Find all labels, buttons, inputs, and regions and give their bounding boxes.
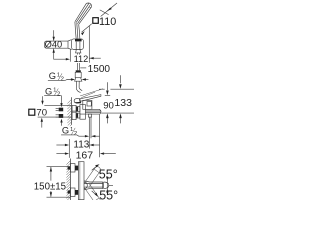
rotated spout down (outline)	[84, 184, 101, 205]
dimension D40: lower arrow elbow to 112	[54, 49, 67, 59]
handle butt flare	[76, 50, 81, 53]
svg-text:2: 2	[57, 91, 60, 97]
dim 70 upper arrow	[42, 96, 44, 101]
supply stub upper (in wall)	[59, 108, 64, 112]
outlet pipe lines	[89, 117, 91, 149]
supply connection bottom (top view)	[68, 190, 71, 193]
dim 70 lower arrow	[41, 122, 43, 128]
union nut upper	[76, 107, 80, 112]
G1/2 supply leader arrow down	[61, 96, 63, 104]
union nut lower	[76, 113, 80, 118]
dim 167	[99, 115, 101, 158]
wall hatch (top view)	[66, 159, 70, 204]
svg-text:2: 2	[74, 131, 77, 137]
rotated spout up (outline)	[84, 166, 101, 187]
shower outlet nipple	[88, 114, 91, 117]
svg-text:G: G	[45, 86, 52, 96]
leader 1500	[80, 67, 86, 69]
dimension 112: right ext bar and arrow	[89, 26, 101, 63]
escutcheon (side view)	[72, 105, 76, 119]
dimension sq110: dim line	[82, 3, 118, 32]
dimension D40: upper arrow	[53, 30, 55, 40]
dimension sq110: upper arrowhead	[107, 8, 112, 12]
handle through ring	[76, 42, 80, 50]
supply stubs bracket arrow	[61, 122, 63, 126]
svg-text:150±15: 150±15	[34, 181, 66, 192]
hose nut	[76, 70, 81, 72]
svg-text:1500: 1500	[88, 64, 111, 75]
svg-text:133: 133	[114, 97, 132, 109]
arc arrow down 55	[92, 191, 97, 195]
svg-text:167: 167	[76, 150, 94, 162]
cartridge housing	[83, 100, 92, 109]
label 112	[73, 55, 87, 63]
mixer body block	[80, 105, 86, 120]
label sq70	[29, 109, 35, 115]
hose below nut	[76, 81, 79, 88]
level line lever-top	[99, 88, 134, 90]
svg-text:Ø40: Ø40	[45, 40, 63, 50]
hand shower handle	[75, 22, 80, 39]
svg-text:110: 110	[99, 16, 116, 28]
svg-text:90: 90	[103, 101, 114, 112]
svg-text:70: 70	[36, 107, 47, 118]
svg-text:G: G	[62, 126, 69, 136]
svg-text:55°: 55°	[99, 189, 118, 200]
svg-text:2: 2	[61, 76, 64, 82]
level line spout-bottom	[101, 112, 134, 114]
dimension sq110: lower arrowhead	[81, 31, 85, 35]
holder cone flare	[68, 40, 72, 50]
wall hatch (side view)	[67, 97, 71, 126]
dim 150+-15 ext lines	[47, 167, 71, 198]
svg-text:G: G	[49, 71, 56, 81]
svg-text:112: 112	[74, 54, 89, 64]
hose nut flare	[75, 78, 82, 82]
dimension 112: left ext bar	[69, 49, 71, 61]
hose upper	[78, 53, 80, 70]
dimension sq110: upper ext tick	[100, 10, 109, 15]
hand shower head	[74, 2, 92, 25]
G1/2 outlet arrow pair	[77, 135, 85, 136]
dim 90 upper arrow	[105, 82, 110, 95]
lever knob	[74, 98, 81, 103]
dim 133 upper arrow	[119, 75, 121, 83]
supply connection top (top view)	[68, 166, 71, 169]
spout (side view)	[80, 109, 101, 114]
wall holder cylinder	[44, 41, 68, 48]
mixer body (top view)	[78, 162, 84, 200]
lever blade	[79, 95, 101, 102]
dim 133 lower arrow	[120, 118, 122, 124]
arc arrow up 55	[92, 166, 98, 171]
dim 70 ext lines	[38, 105, 72, 117]
G1/2 arrow pair at nut	[65, 79, 72, 82]
spout (top view)	[84, 181, 103, 190]
center line arrows at spout tip	[107, 177, 113, 193]
lever raised outline	[80, 89, 103, 98]
svg-text:55°: 55°	[99, 167, 118, 181]
dim 113	[68, 139, 70, 158]
supply stub lower (in wall)	[59, 114, 64, 118]
label sq110	[92, 16, 117, 26]
dim 90 lower arrow	[106, 118, 108, 124]
dim 150+-15 line and arrows	[50, 167, 52, 197]
holder ring	[72, 39, 84, 50]
diverter square	[87, 102, 91, 107]
